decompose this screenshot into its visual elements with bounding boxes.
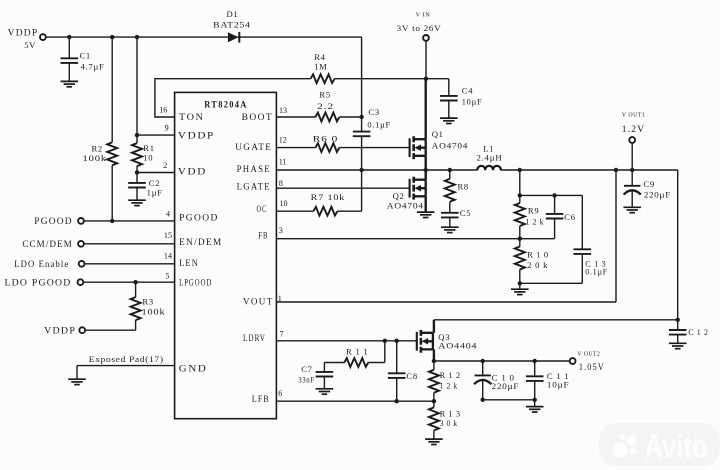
wire R6 to Q1 gate xyxy=(339,147,409,149)
resistor R6 0 xyxy=(315,143,339,152)
wire VOUT1 terminal drop xyxy=(631,143,633,170)
svg-text:8: 8 xyxy=(279,179,283,188)
node VIN junction xyxy=(424,77,428,81)
svg-text:14: 14 xyxy=(164,252,172,261)
node VDDP junction at C1 xyxy=(67,35,71,39)
wire R11 branch xyxy=(368,341,385,363)
node L1 output junction xyxy=(518,168,522,172)
capacitor C4 10uF xyxy=(440,96,458,101)
wire LGATE pin8 to Q2 gate xyxy=(276,187,409,189)
svg-text:3: 3 xyxy=(279,226,283,235)
node pin9 junction xyxy=(135,133,139,137)
transistor Q1 AO4704 xyxy=(410,136,426,159)
svg-text:10: 10 xyxy=(143,153,153,163)
svg-text:2.4µH: 2.4µH xyxy=(477,153,503,163)
svg-text:LDO PGOOD: LDO PGOOD xyxy=(5,279,72,289)
svg-text:VOUT: VOUT xyxy=(243,298,274,308)
node pin2 junction xyxy=(135,170,139,174)
terminal PGOOD xyxy=(78,218,84,224)
node junction R1 top xyxy=(135,35,139,39)
svg-text:C8: C8 xyxy=(406,371,417,381)
svg-text:33nF: 33nF xyxy=(298,375,315,385)
svg-text:1M: 1M xyxy=(314,62,327,72)
svg-text:C6: C6 xyxy=(564,212,575,222)
svg-text:C9: C9 xyxy=(643,179,654,189)
resistor R10 2.0k xyxy=(515,247,525,270)
svg-text:C7: C7 xyxy=(301,364,312,374)
svg-text:C 1 2: C 1 2 xyxy=(688,327,709,337)
node feedback column junction xyxy=(614,168,618,172)
transistor Q2 AO4704 xyxy=(410,177,426,200)
svg-text:C3: C3 xyxy=(368,107,379,117)
resistor R5 2.2 xyxy=(315,113,339,122)
ground below C2 xyxy=(128,200,146,205)
svg-text:10µF: 10µF xyxy=(462,96,483,106)
node C10 junction xyxy=(481,359,485,363)
svg-text:3 0 k: 3 0 k xyxy=(440,418,458,428)
svg-text:AO4404: AO4404 xyxy=(438,340,477,350)
wire R11 to C7 xyxy=(324,363,344,372)
svg-text:GND: GND xyxy=(179,364,208,374)
wire C4 branch xyxy=(426,79,449,96)
svg-text:100k: 100k xyxy=(83,153,108,163)
wire LFB pin6 run xyxy=(276,400,434,402)
wire pin 2 VDD stub xyxy=(137,172,175,174)
node junction R2 top xyxy=(110,35,114,39)
svg-text:OC: OC xyxy=(257,205,268,215)
svg-text:LFB: LFB xyxy=(252,395,270,405)
terminal LDO PGOOD xyxy=(78,279,84,285)
svg-text:R 1 2: R 1 2 xyxy=(440,370,461,380)
wire OC pin10 xyxy=(276,210,313,212)
svg-text:0.1µF: 0.1µF xyxy=(367,120,391,130)
watermark Avito xyxy=(599,423,720,466)
svg-text:16: 16 xyxy=(159,106,167,115)
ground below C7 xyxy=(316,389,334,394)
svg-text:Avito: Avito xyxy=(645,427,708,464)
node R12 R13 junction xyxy=(432,399,436,403)
wire BOOT pin13 xyxy=(276,116,315,118)
wire R1 bottom to C2 xyxy=(136,166,138,183)
node R11 branch junction xyxy=(383,339,387,343)
svg-text:4.7µF: 4.7µF xyxy=(81,62,105,72)
svg-text:VDD: VDD xyxy=(178,168,207,178)
ground exposed pad xyxy=(68,379,86,384)
svg-text:1 2 k: 1 2 k xyxy=(526,217,545,227)
node C11 junction xyxy=(533,359,537,363)
svg-text:C4: C4 xyxy=(462,85,473,95)
svg-text:6: 6 xyxy=(278,389,282,398)
capacitor C5 xyxy=(441,213,459,218)
wire UGATE pin12 xyxy=(276,147,315,149)
svg-text:1: 1 xyxy=(278,294,282,303)
node phase R8 junction xyxy=(448,168,452,172)
ground below C11 xyxy=(526,407,544,412)
wire pin 9 VDDP stub xyxy=(137,134,175,136)
svg-text:10µF: 10µF xyxy=(547,380,570,390)
wire exposed pad to ground xyxy=(77,366,175,379)
svg-text:4: 4 xyxy=(166,209,170,218)
diode D1 BAT254 xyxy=(228,32,239,42)
svg-text:UGATE: UGATE xyxy=(235,143,272,153)
svg-text:BAT254: BAT254 xyxy=(213,19,251,29)
resistor R12 1.2k xyxy=(429,370,439,393)
node R2 bottom junction xyxy=(110,219,114,223)
svg-text:2.2: 2.2 xyxy=(317,101,334,111)
terminal V IN 3V to 26V xyxy=(423,35,429,41)
resistor R1 10 xyxy=(132,143,142,166)
ground below C12 xyxy=(669,343,687,348)
capacitor C10 220uF xyxy=(483,361,535,400)
svg-text:9: 9 xyxy=(165,124,169,133)
svg-text:CCM/DEM: CCM/DEM xyxy=(22,240,73,250)
svg-text:PGOOD: PGOOD xyxy=(34,217,73,227)
svg-text:R1: R1 xyxy=(143,143,154,153)
svg-text:VDDP: VDDP xyxy=(8,29,39,39)
svg-text:0.1µF: 0.1µF xyxy=(585,266,608,276)
svg-text:PHASE: PHASE xyxy=(237,165,271,175)
svg-text:220µF: 220µF xyxy=(644,190,671,200)
wire VOUT2 rail xyxy=(434,360,570,362)
terminal V OUT2 1.05V xyxy=(570,358,576,364)
capacitor C9 220uF xyxy=(631,170,633,207)
wire TON pin16 to top feedback run xyxy=(155,79,311,117)
svg-text:100k: 100k xyxy=(142,307,166,317)
terminal VDDP 5V xyxy=(40,34,46,40)
svg-text:Exposed Pad(17): Exposed Pad(17) xyxy=(89,354,164,364)
resistor R11 xyxy=(344,358,368,367)
capacitor C13 0.1uF xyxy=(520,195,583,283)
wire top VDDP 5V rail xyxy=(46,37,362,117)
wire PGOOD to pin4 xyxy=(84,220,175,222)
node C12 junction xyxy=(676,318,680,322)
IC U1 RT8204A xyxy=(175,92,277,418)
svg-text:LDO Enable: LDO Enable xyxy=(14,260,69,270)
svg-text:VDDP: VDDP xyxy=(44,327,76,337)
svg-text:V OUT1: V OUT1 xyxy=(622,112,646,118)
svg-text:LGATE: LGATE xyxy=(237,183,271,193)
svg-text:R4: R4 xyxy=(314,52,325,62)
ground below R13 xyxy=(425,439,443,444)
terminal VDDP lower xyxy=(79,327,85,333)
svg-text:R 1 1: R 1 1 xyxy=(346,347,369,357)
capacitor C3 0.1uF xyxy=(361,117,363,170)
node VOUT1 rail junction xyxy=(630,168,634,172)
capacitor C6 xyxy=(554,195,556,238)
wire LDO Enable to pin14 xyxy=(85,263,175,265)
wire R9 column xyxy=(519,170,521,239)
ground below C5 xyxy=(441,227,459,232)
resistor R13 3.0k xyxy=(429,407,439,430)
svg-text:FB: FB xyxy=(258,232,268,242)
wire FB pin3 run xyxy=(276,238,554,240)
svg-text:10: 10 xyxy=(280,199,288,208)
wire LDRV pin7 to Q3 gate xyxy=(276,340,416,342)
svg-text:11: 11 xyxy=(279,157,287,166)
svg-text:R3: R3 xyxy=(142,296,153,306)
resistor R2 100k xyxy=(111,37,113,221)
inductor L1 2.4uH xyxy=(477,166,500,170)
wire VOUT pin1 feedback run xyxy=(276,170,616,302)
svg-text:C1: C1 xyxy=(80,51,91,61)
svg-text:5: 5 xyxy=(165,272,169,281)
svg-text:R5: R5 xyxy=(319,90,330,100)
capacitor C1 4.7uF xyxy=(68,37,70,81)
resistor R8 xyxy=(449,170,451,213)
svg-text:EN/DEM: EN/DEM xyxy=(179,238,223,248)
terminal V OUT1 1.2V xyxy=(629,137,635,143)
node Q3 source junction xyxy=(432,359,436,363)
terminal CCM/DEM xyxy=(78,241,84,247)
svg-text:2 0 k: 2 0 k xyxy=(527,260,548,270)
wire L1 to output rail xyxy=(501,170,678,320)
node phase Q1/Q2 junction xyxy=(424,168,428,172)
svg-text:AO4704: AO4704 xyxy=(387,200,424,210)
wire PHASE pin11 run to L1 xyxy=(276,169,477,171)
resistor R7 10k xyxy=(313,207,337,216)
node phase C3 junction xyxy=(359,168,363,172)
ground below Q2 source xyxy=(417,212,435,217)
capacitor C2 1uF xyxy=(128,183,146,188)
svg-text:5V: 5V xyxy=(24,40,36,50)
capacitor C11 10uF xyxy=(534,361,536,406)
ground below C1 xyxy=(61,81,79,86)
ground below R10 xyxy=(519,283,521,289)
node R10 bottom junction xyxy=(518,281,522,285)
svg-text:1.2V: 1.2V xyxy=(622,125,646,135)
transistor Q3 AO4404 xyxy=(417,330,433,353)
terminal LDO Enable xyxy=(79,261,85,267)
svg-text:PGOOD: PGOOD xyxy=(179,214,219,224)
svg-text:13: 13 xyxy=(279,106,287,115)
svg-text:3V to 26V: 3V to 26V xyxy=(397,23,442,33)
capacitor C12 xyxy=(677,320,679,343)
svg-text:TON: TON xyxy=(179,113,204,123)
resistor R4 1M xyxy=(311,74,335,83)
svg-text:RT8204A: RT8204A xyxy=(204,100,248,111)
svg-text:1.05V: 1.05V xyxy=(579,363,605,373)
svg-text:2: 2 xyxy=(163,161,167,170)
svg-text:LEN: LEN xyxy=(179,259,199,269)
svg-text:1µF: 1µF xyxy=(147,187,163,197)
wire R4 to VIN node xyxy=(335,78,426,80)
wire Q3 drain rail to C12 xyxy=(434,319,678,321)
resistor R9 1.2k xyxy=(515,203,525,226)
svg-text:VDDP: VDDP xyxy=(178,131,215,141)
capacitor C7 33nF xyxy=(316,372,334,377)
svg-text:V OUT2: V OUT2 xyxy=(577,351,600,357)
node bootstrap junction xyxy=(359,115,363,119)
svg-text:AO4704: AO4704 xyxy=(432,141,469,151)
svg-text:C5: C5 xyxy=(460,208,471,218)
svg-text:LDRV: LDRV xyxy=(243,334,266,344)
svg-text:R6 0: R6 0 xyxy=(313,134,339,144)
ground below C9 xyxy=(623,207,641,212)
wire CCM/DEM to pin15 xyxy=(84,243,175,245)
svg-text:7: 7 xyxy=(280,329,284,338)
svg-text:1 2 k: 1 2 k xyxy=(440,380,458,390)
node C8 branch junction xyxy=(395,339,399,343)
svg-text:LPGOOD: LPGOOD xyxy=(179,279,212,289)
wire VDDP column to R1 xyxy=(136,37,138,143)
wire branch to C6 and C13 xyxy=(520,194,583,196)
ground below C4 xyxy=(440,118,458,123)
wire LDO PGOOD to pin5 xyxy=(83,281,174,283)
svg-text:BOOT: BOOT xyxy=(242,113,273,123)
svg-text:Q1: Q1 xyxy=(432,129,444,139)
svg-text:V IN: V IN xyxy=(416,12,431,18)
node C8 bottom junction xyxy=(395,399,399,403)
svg-text:R7 10k: R7 10k xyxy=(311,192,346,202)
node C6 top junction xyxy=(552,193,556,197)
node R9 top branch junction xyxy=(518,193,522,197)
svg-text:R9: R9 xyxy=(528,206,539,216)
svg-text:R 1 0: R 1 0 xyxy=(527,249,549,259)
wire R5 to bootstrap node xyxy=(339,116,361,118)
svg-text:12: 12 xyxy=(279,136,287,145)
svg-text:220µF: 220µF xyxy=(492,381,520,391)
svg-text:15: 15 xyxy=(164,231,172,240)
svg-text:D1: D1 xyxy=(227,9,239,19)
capacitor C8 xyxy=(396,341,398,401)
svg-text:R8: R8 xyxy=(458,181,469,191)
wire R7 to phase column xyxy=(337,170,361,211)
node FB divider junction xyxy=(518,237,522,241)
resistor R3 100k xyxy=(85,282,135,330)
wire VIN terminal drop xyxy=(425,41,427,79)
node R3 top junction xyxy=(133,280,137,284)
